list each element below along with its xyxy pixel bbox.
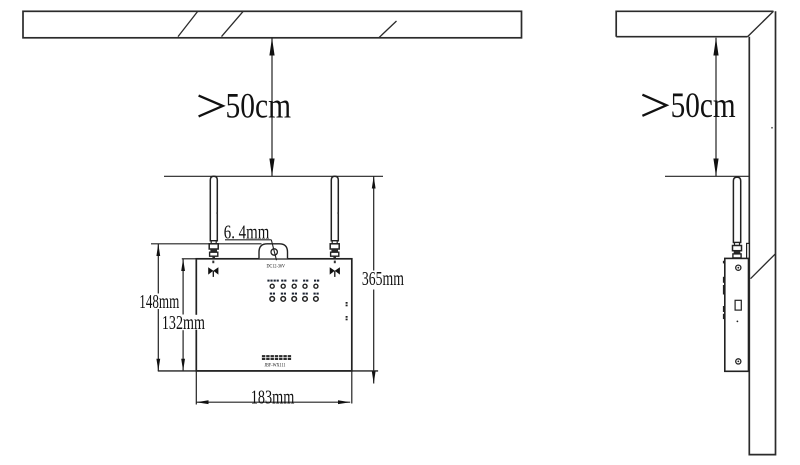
132mm extension (box top extended left) (182, 258, 197, 260)
ceiling hatch line 1 (178, 12, 198, 37)
svg-text:50cm: 50cm (671, 85, 736, 125)
left antenna (front view) (210, 176, 217, 241)
svg-text:183mm: 183mm (251, 386, 295, 408)
side device box (725, 258, 749, 371)
dimension arrow >50cm (left view) (271, 38, 273, 177)
wall strip (749, 11, 775, 454)
dimension arrow >50cm (right view) (715, 38, 717, 177)
ceiling hatch line 3 (partial) (379, 21, 397, 38)
faint mark bottom-left inside box (198, 316, 201, 318)
svg-text:50cm: 50cm (226, 85, 292, 125)
side view datum extension line (665, 175, 749, 177)
wall hatch line (751, 254, 776, 279)
svg-text:365mm: 365mm (362, 268, 404, 290)
183mm extension lines (195, 371, 197, 405)
side antenna (733, 177, 740, 242)
terminal row 1 labels (267, 280, 319, 282)
right edge marks inside box (346, 302, 348, 320)
ceiling beam (front view) (23, 11, 522, 38)
leader line for 6.4mm (271, 240, 276, 260)
dimension 365mm line (373, 176, 375, 270)
svg-text:148mm: 148mm (139, 291, 179, 313)
terminal circles row 2 (270, 297, 318, 302)
side connector rectangle (735, 300, 741, 310)
antenna-top datum extension line (front view) (164, 175, 383, 177)
svg-text:DC12-36V: DC12-36V (267, 264, 286, 270)
label 132mm (160, 315, 206, 330)
corner diagonal (748, 11, 774, 36)
label >50cm (right) (642, 95, 666, 116)
box bottom edge with extensions (158, 370, 378, 372)
ceiling beam (side view, right) (616, 11, 773, 36)
antenna port icon A (bowtie, left) (212, 261, 214, 264)
terminal row 2 labels (270, 293, 319, 295)
wall dot (771, 127, 773, 129)
side bottom screw (736, 359, 741, 364)
side mounting plate tab (747, 243, 750, 258)
svg-text:132mm: 132mm (162, 312, 205, 334)
132mm dimension line (182, 259, 184, 315)
right antenna (front view) (331, 176, 338, 241)
antenna port icon B (bowtie, right) (334, 261, 336, 264)
terminal circles row 1 (270, 284, 318, 288)
label >50cm (left) (199, 96, 223, 117)
ceiling hatch line 2 (222, 12, 244, 37)
label 365mm (360, 271, 406, 286)
mounting tab with screw hole (259, 244, 288, 259)
side terminal bumps on left edge (723, 261, 725, 319)
device box (front view) (196, 259, 351, 371)
label 148mm (138, 294, 182, 309)
side small dot (737, 321, 739, 323)
side top screw (736, 265, 741, 270)
183mm dimension line (196, 401, 350, 403)
148mm top extension line (151, 243, 262, 245)
svg-text:JBF-WX111: JBF-WX111 (265, 362, 286, 368)
product name text (simulated CJK) (262, 355, 291, 360)
148mm dimension line (157, 244, 159, 294)
